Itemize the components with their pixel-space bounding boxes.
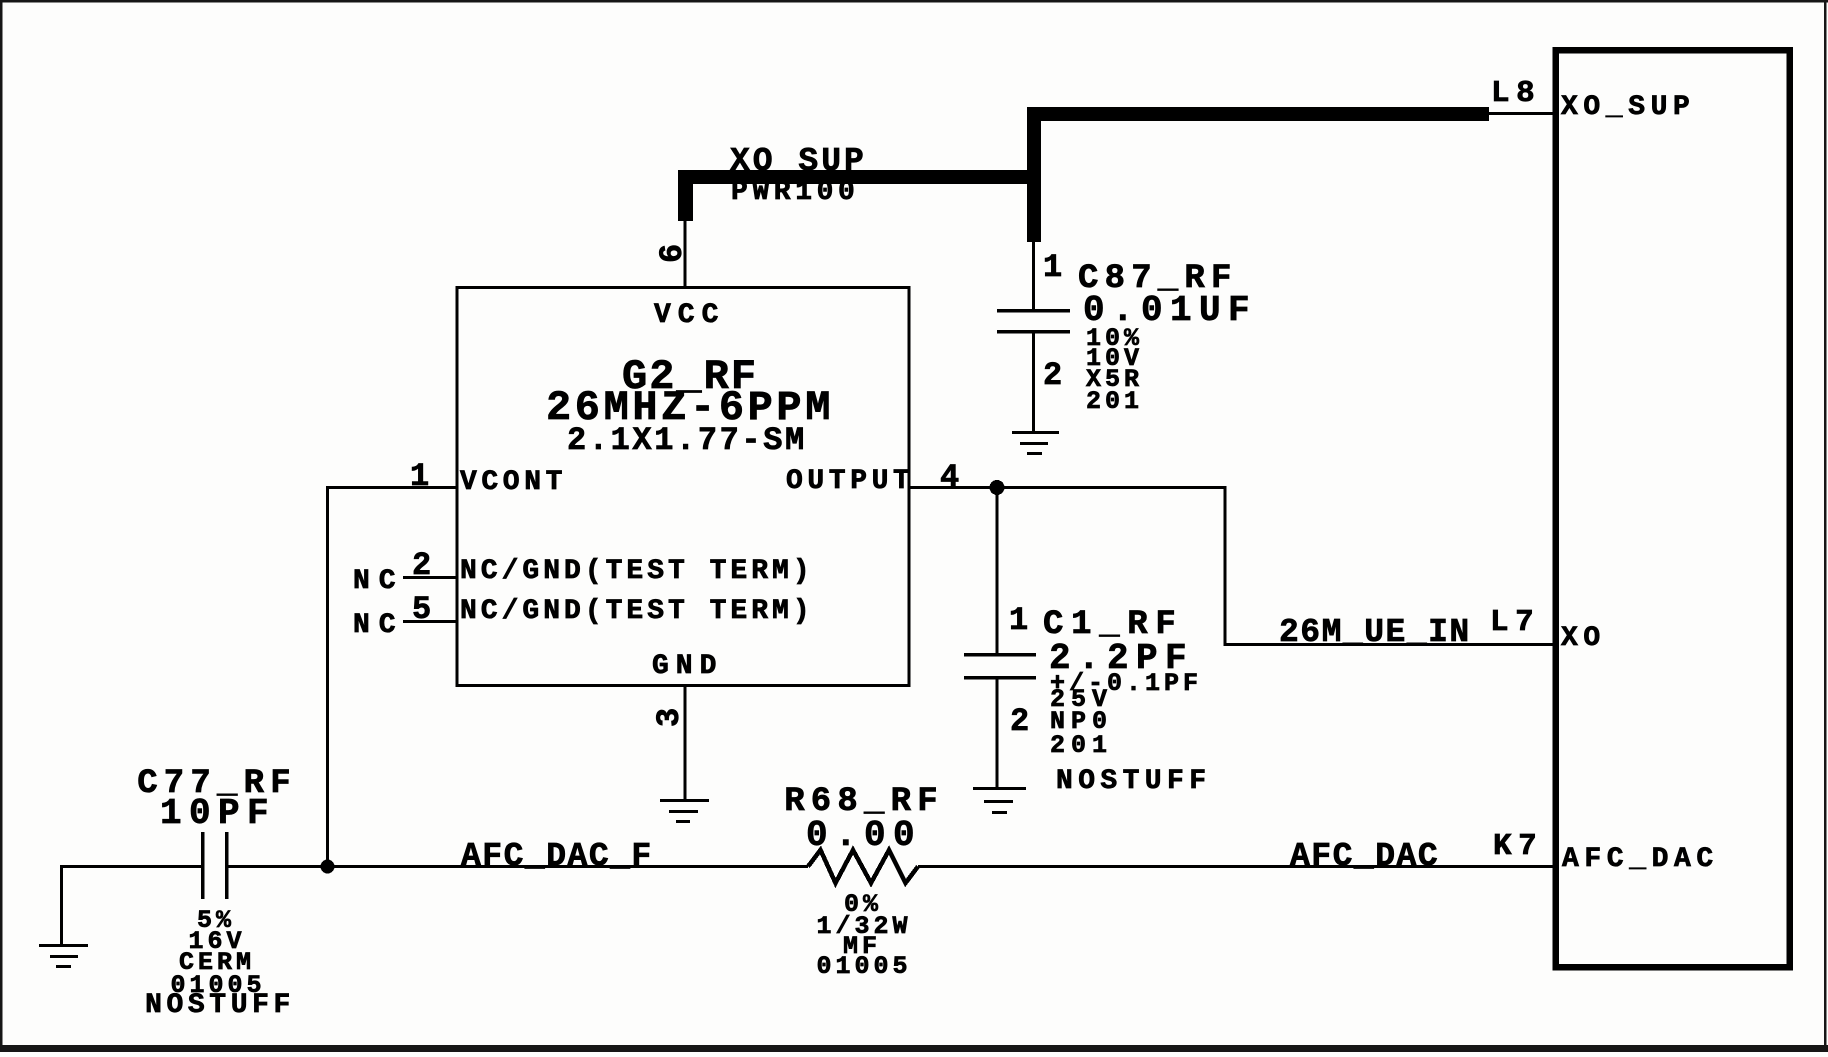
svg-text:26M_UE_IN: 26M_UE_IN <box>1279 614 1471 651</box>
wire OUTPUT corner vertical drop <box>1224 486 1227 645</box>
svg-text:PWR100: PWR100 <box>731 177 859 208</box>
node junction dot VCONT/AFC_DAC_F <box>321 860 335 874</box>
capacitor C77 plates (series, vertical plates) <box>201 832 229 899</box>
svg-text:6: 6 <box>654 244 691 263</box>
ground symbol (G2 pin3) <box>660 799 709 823</box>
wire XO_SUP thin segment to pin L8 <box>1487 112 1555 115</box>
node junction dot OUTPUT/C1 <box>990 480 1005 495</box>
svg-text:2: 2 <box>1043 357 1062 394</box>
ground symbol (C87) <box>1012 431 1059 455</box>
wire pin 2 stub <box>403 576 457 579</box>
svg-text:01005: 01005 <box>816 952 911 981</box>
svg-text:5: 5 <box>412 591 431 628</box>
capacitor C87 plates <box>997 309 1070 334</box>
svg-text:VCONT: VCONT <box>460 467 567 498</box>
svg-text:1: 1 <box>410 458 429 495</box>
svg-text:201: 201 <box>1086 387 1143 416</box>
wire pin 3 GND vertical <box>684 685 687 801</box>
svg-text:NOSTUFF: NOSTUFF <box>1056 766 1211 797</box>
wire pin 4 OUTPUT horizontal <box>909 486 1226 489</box>
capacitor C1 plates <box>964 653 1036 680</box>
svg-text:L8: L8 <box>1491 76 1541 111</box>
oscillator G2_RF box <box>457 288 909 686</box>
svg-text:XO: XO <box>1561 623 1606 654</box>
wire AFC_DAC resistor to pin K7 <box>918 865 1556 868</box>
svg-text:2.1X1.77-SM: 2.1X1.77-SM <box>567 422 807 459</box>
svg-text:NOSTUFF: NOSTUFF <box>145 990 295 1021</box>
svg-text:1: 1 <box>1009 602 1028 639</box>
svg-text:OUTPUT: OUTPUT <box>786 466 914 497</box>
wire C87 bottom to ground <box>1032 331 1035 432</box>
svg-text:AFC_DAC_F: AFC_DAC_F <box>461 838 653 875</box>
svg-text:AFC_DAC: AFC_DAC <box>1290 838 1439 875</box>
ground symbol (C77) <box>39 944 88 968</box>
svg-text:10PF: 10PF <box>160 793 276 834</box>
wire pin 5 stub <box>403 620 457 623</box>
svg-text:201: 201 <box>1050 731 1113 760</box>
wire pin 1 VCONT horizontal <box>326 486 457 489</box>
svg-text:L7: L7 <box>1490 605 1540 640</box>
wire C87 top connection <box>1032 242 1035 310</box>
svg-text:NC/GND(TEST TERM): NC/GND(TEST TERM) <box>460 596 814 627</box>
svg-text:3: 3 <box>651 708 688 727</box>
wire XO_SUP bus upper horizontal (thick) <box>1027 107 1489 121</box>
wire C1 bottom to ground <box>996 677 999 788</box>
wire AFC_DAC_F left segment <box>60 865 203 868</box>
svg-text:NC/GND(TEST TERM): NC/GND(TEST TERM) <box>460 556 814 587</box>
svg-text:0.00: 0.00 <box>806 815 922 856</box>
wire XO_SUP bus lower horizontal (thick) <box>679 170 1041 184</box>
svg-text:K7: K7 <box>1493 829 1543 864</box>
resistor R68 zigzag <box>808 850 918 883</box>
wire 26M_UE_IN to pin L7 <box>1224 643 1556 646</box>
svg-text:2: 2 <box>412 547 431 584</box>
svg-text:VCC: VCC <box>654 300 725 331</box>
wire C77 right to resistor <box>227 865 808 868</box>
wire pin 6 VCC vertical <box>684 221 687 289</box>
svg-text:1: 1 <box>1043 249 1062 286</box>
svg-text:XO_SUP: XO_SUP <box>730 143 867 180</box>
wire C77 left stub down to ground <box>60 865 63 945</box>
svg-text:2: 2 <box>1010 703 1029 740</box>
svg-text:NC: NC <box>353 610 405 641</box>
svg-text:XO_SUP: XO_SUP <box>1561 92 1695 123</box>
wire C1 top connection <box>996 487 999 654</box>
wire XO_SUP bus vertical (thick) <box>1027 107 1041 242</box>
svg-text:4: 4 <box>940 459 959 496</box>
connector J box <box>1556 50 1790 967</box>
svg-text:NC: NC <box>353 566 405 597</box>
svg-text:AFC_DAC: AFC_DAC <box>1562 844 1719 875</box>
wire XO_SUP bus left stub (thick) <box>678 170 693 221</box>
svg-text:GND: GND <box>652 651 723 682</box>
ground symbol (C1) <box>973 787 1026 814</box>
wire VCONT net vertical drop <box>326 486 329 867</box>
